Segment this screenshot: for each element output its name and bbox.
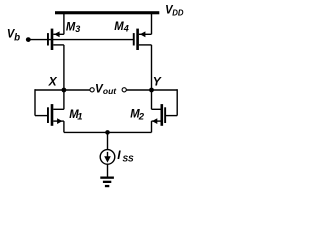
svg-text:b: b xyxy=(14,33,20,44)
VDD label xyxy=(165,2,184,17)
Vb label xyxy=(7,27,20,44)
M4 label xyxy=(114,19,129,34)
svg-text:X: X xyxy=(48,74,58,88)
transistor M3 (PMOS) xyxy=(47,29,64,50)
wire ISS to ground xyxy=(107,164,109,176)
wire M2 source down to tail xyxy=(151,121,153,132)
svg-text:out: out xyxy=(103,86,117,96)
svg-text:I: I xyxy=(117,148,121,162)
Y label xyxy=(153,74,162,88)
wire tail line joining M1 and M2 sources xyxy=(64,131,152,133)
svg-text:SS: SS xyxy=(123,154,135,164)
svg-text:3: 3 xyxy=(75,24,80,34)
transistor M2 (NMOS mirrored) xyxy=(152,104,167,126)
M2 label xyxy=(130,107,145,123)
wire M3 drain to node X and M1 drain xyxy=(63,45,65,109)
wire M3 source to VDD xyxy=(63,13,65,34)
wire M4 source to VDD xyxy=(151,13,153,34)
Vout right open terminal xyxy=(122,88,126,92)
Vout label xyxy=(95,81,117,96)
VDD rail xyxy=(55,11,159,14)
svg-text:Y: Y xyxy=(153,74,162,88)
current source ISS xyxy=(100,150,115,165)
ISS label xyxy=(117,148,134,164)
wire M4 drain to node Y and M2 drain xyxy=(151,45,153,109)
svg-text:1: 1 xyxy=(77,112,82,123)
node tail junction dot xyxy=(105,130,110,135)
svg-text:4: 4 xyxy=(123,24,129,34)
node Vb terminal dot xyxy=(26,37,31,42)
Vout left open terminal xyxy=(90,88,94,92)
node Y junction dot xyxy=(149,88,154,93)
ground xyxy=(100,177,114,188)
node X junction dot xyxy=(62,88,67,93)
M1 label xyxy=(69,107,82,122)
transistor M4 (PMOS) xyxy=(133,29,152,50)
wire M1 source down to tail xyxy=(63,121,65,132)
svg-text:DD: DD xyxy=(172,8,184,17)
wire tail to current source ISS xyxy=(107,132,109,149)
transistor M1 (NMOS) xyxy=(47,104,64,126)
X label xyxy=(48,74,58,88)
wire node X to M1 gate xyxy=(35,89,48,115)
wire node Y to M2 gate xyxy=(165,89,177,115)
wire Vb bias line to gates of M3 and M4 xyxy=(28,39,133,41)
M3 label xyxy=(66,20,80,34)
wire node X horizontal to Vout terminal xyxy=(35,89,90,91)
svg-text:2: 2 xyxy=(138,112,145,123)
wire node Y horizontal to Vout terminal xyxy=(126,89,177,91)
